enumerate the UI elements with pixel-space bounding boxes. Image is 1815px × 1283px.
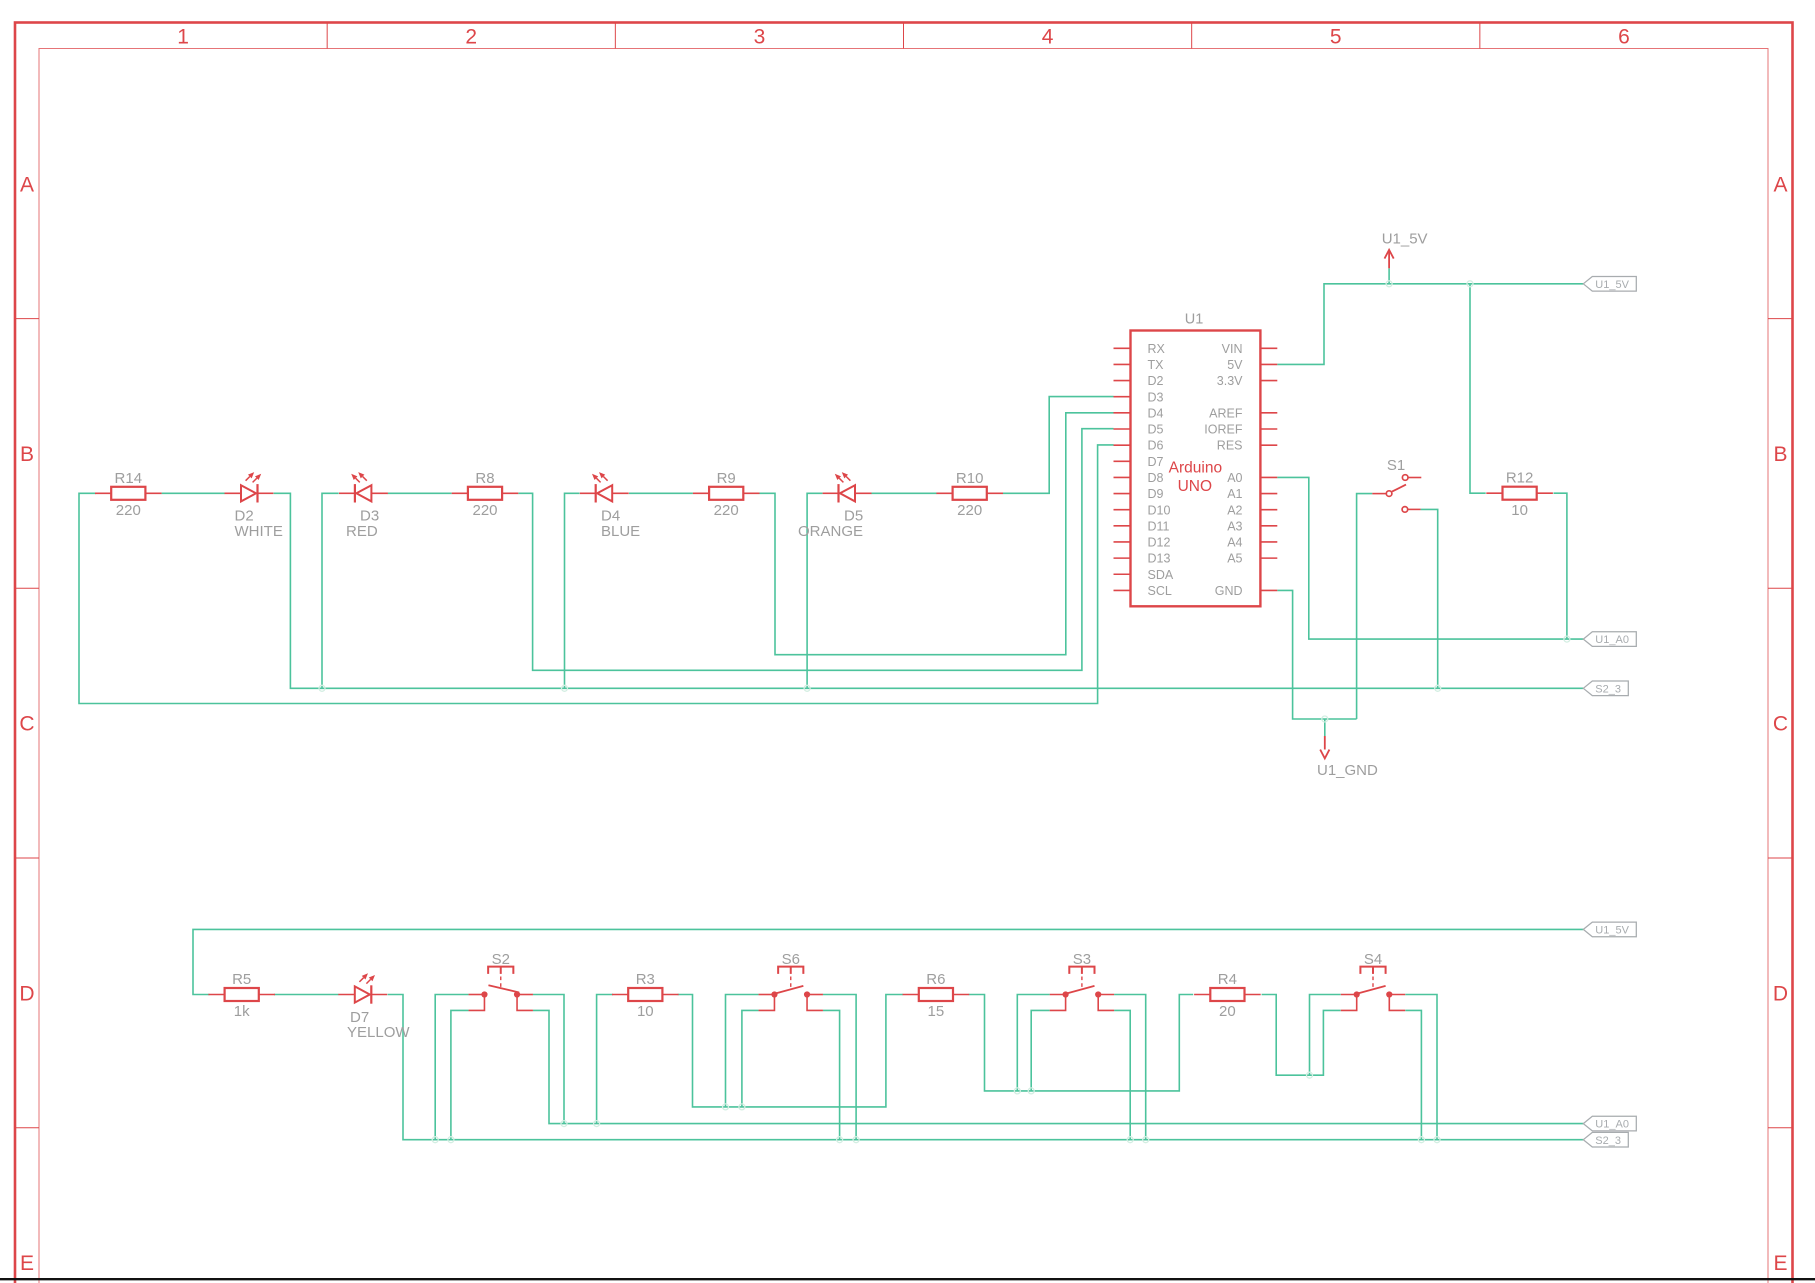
svg-text:D5: D5 (1148, 423, 1164, 437)
svg-text:B: B (20, 443, 34, 466)
svg-text:BLUE: BLUE (601, 523, 640, 540)
svg-text:S2_3: S2_3 (1595, 683, 1621, 695)
svg-text:E: E (20, 1252, 34, 1275)
svg-text:15: 15 (928, 1003, 945, 1020)
svg-text:D7: D7 (1148, 455, 1164, 469)
svg-text:R14: R14 (115, 470, 143, 487)
svg-text:VIN: VIN (1222, 342, 1243, 356)
svg-text:D10: D10 (1148, 503, 1171, 517)
svg-text:D2: D2 (1148, 374, 1164, 388)
svg-text:S2_3: S2_3 (1595, 1135, 1621, 1147)
svg-text:6: 6 (1618, 26, 1630, 49)
svg-text:R3: R3 (636, 971, 655, 988)
svg-text:10: 10 (637, 1003, 654, 1020)
svg-text:220: 220 (116, 502, 141, 519)
svg-text:220: 220 (957, 502, 982, 519)
svg-text:D3: D3 (1148, 390, 1164, 404)
svg-text:A: A (1773, 173, 1787, 196)
svg-text:U1_GND: U1_GND (1317, 762, 1378, 779)
svg-text:A: A (20, 173, 34, 196)
svg-text:Arduino: Arduino (1169, 459, 1222, 476)
svg-text:D11: D11 (1148, 519, 1170, 533)
svg-text:D: D (1773, 982, 1788, 1005)
svg-text:D6: D6 (1148, 439, 1164, 453)
svg-text:3: 3 (754, 26, 766, 49)
svg-text:SDA: SDA (1148, 568, 1174, 582)
svg-text:A0: A0 (1227, 471, 1242, 485)
svg-text:S4: S4 (1364, 951, 1382, 968)
svg-text:S1: S1 (1387, 457, 1405, 474)
svg-text:2: 2 (465, 26, 477, 49)
svg-text:5: 5 (1330, 26, 1342, 49)
svg-text:IOREF: IOREF (1204, 423, 1243, 437)
svg-text:D9: D9 (1148, 487, 1164, 501)
svg-text:D: D (19, 982, 34, 1005)
svg-text:R8: R8 (475, 470, 494, 487)
svg-text:R10: R10 (956, 470, 984, 487)
svg-text:R5: R5 (232, 971, 251, 988)
svg-text:U1_5V: U1_5V (1595, 925, 1629, 937)
svg-text:B: B (1773, 443, 1787, 466)
svg-text:YELLOW: YELLOW (347, 1024, 410, 1041)
svg-text:E: E (1773, 1252, 1787, 1275)
svg-text:20: 20 (1219, 1003, 1236, 1020)
svg-text:AREF: AREF (1209, 406, 1243, 420)
svg-text:U1_5V: U1_5V (1382, 231, 1428, 248)
svg-text:D12: D12 (1148, 536, 1171, 550)
svg-text:220: 220 (472, 502, 497, 519)
svg-text:D8: D8 (1148, 471, 1164, 485)
svg-text:TX: TX (1148, 358, 1165, 372)
svg-text:4: 4 (1042, 26, 1054, 49)
svg-text:A4: A4 (1227, 536, 1242, 550)
svg-text:R4: R4 (1218, 971, 1237, 988)
svg-text:ORANGE: ORANGE (798, 523, 863, 540)
svg-text:R12: R12 (1506, 470, 1534, 487)
svg-text:R9: R9 (717, 470, 736, 487)
svg-text:U1_5V: U1_5V (1595, 279, 1629, 291)
svg-text:RX: RX (1148, 342, 1166, 356)
svg-text:C: C (1773, 713, 1788, 736)
svg-text:1: 1 (177, 26, 189, 49)
svg-text:A1: A1 (1227, 487, 1242, 501)
svg-text:S6: S6 (782, 951, 800, 968)
svg-text:220: 220 (714, 502, 739, 519)
svg-text:U1_A0: U1_A0 (1595, 634, 1629, 646)
svg-text:RES: RES (1217, 439, 1243, 453)
svg-text:5V: 5V (1227, 358, 1243, 372)
svg-text:R6: R6 (926, 971, 945, 988)
svg-text:A2: A2 (1227, 503, 1242, 517)
svg-text:D13: D13 (1148, 552, 1171, 566)
svg-text:WHITE: WHITE (235, 523, 283, 540)
svg-text:GND: GND (1215, 584, 1243, 598)
svg-text:UNO: UNO (1178, 478, 1212, 495)
svg-text:3.3V: 3.3V (1217, 374, 1243, 388)
svg-text:S2: S2 (492, 951, 510, 968)
svg-text:D4: D4 (1148, 406, 1164, 420)
svg-text:S3: S3 (1073, 951, 1091, 968)
svg-text:1k: 1k (234, 1003, 250, 1020)
svg-text:U1: U1 (1185, 312, 1204, 328)
svg-text:RED: RED (346, 523, 378, 540)
svg-text:10: 10 (1511, 502, 1528, 519)
svg-text:A5: A5 (1227, 552, 1242, 566)
svg-text:SCL: SCL (1148, 584, 1172, 598)
svg-text:C: C (19, 713, 34, 736)
svg-text:A3: A3 (1227, 519, 1242, 533)
svg-text:U1_A0: U1_A0 (1595, 1119, 1629, 1131)
